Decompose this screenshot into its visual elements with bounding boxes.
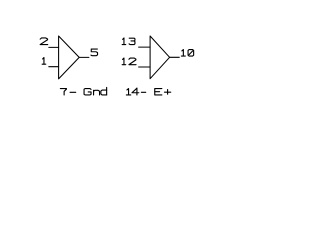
op-amp U1B triangle [150,36,170,79]
power pin legend "14- E+" [126,88,170,95]
pin number 2 [40,38,48,45]
wire: input pin 13 stub [139,46,151,48]
power pin legend "7- Gnd" [60,87,106,94]
pin number 5 [91,49,98,56]
wire: input pin 2 stub [49,46,59,48]
wire: output pin 5 stub [79,56,89,58]
op-amp U1A triangle [59,36,80,79]
pin number 1 [42,58,46,65]
pin number 10 [181,50,193,56]
wire: input pin 12 stub [139,66,151,68]
wire: input pin 1 stub [49,66,59,68]
wire: output pin 10 stub [170,56,180,58]
pin number 12 [122,58,136,65]
pin number 13 [122,38,135,45]
